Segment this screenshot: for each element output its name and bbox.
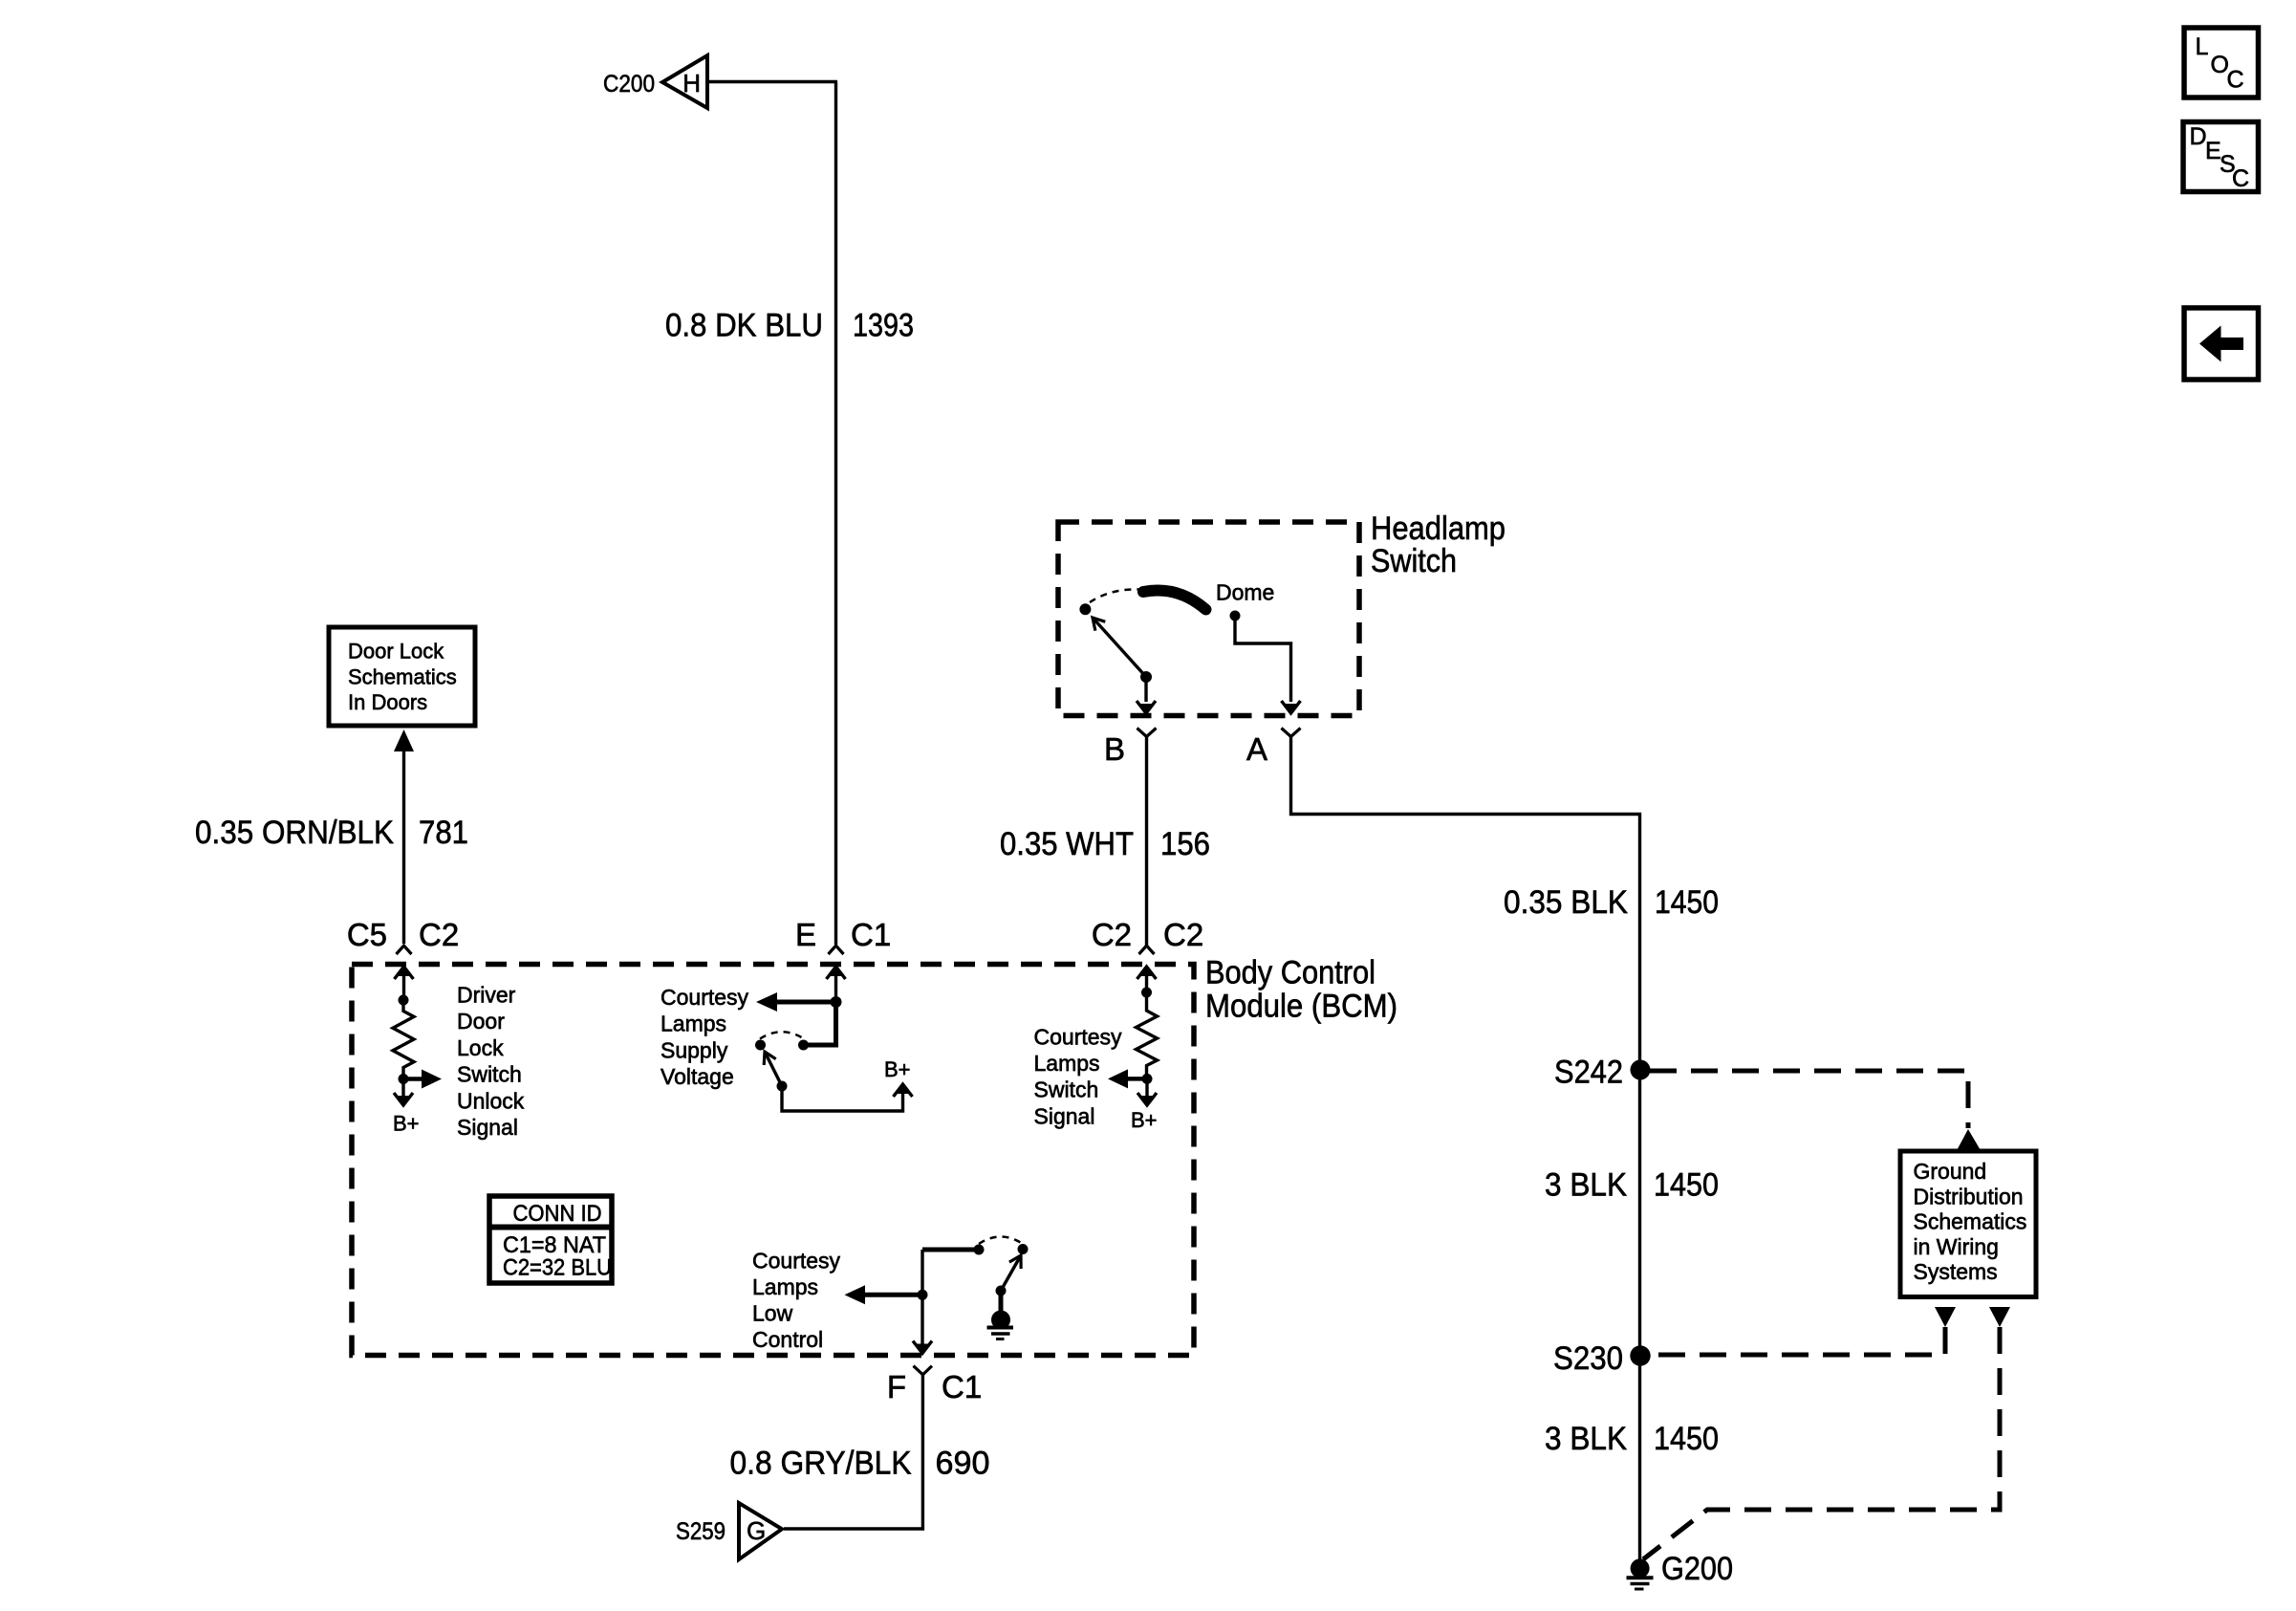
courtesy lamps supply voltage arrow left	[756, 992, 842, 1012]
BCM dashed box	[352, 965, 1194, 1356]
label 0.35 WHT 156	[1000, 826, 1210, 862]
arrow out of box toward S230	[1935, 1307, 1956, 1327]
splice S259 label	[676, 1518, 726, 1545]
dashed wire from box to S230	[1652, 1327, 1945, 1355]
svg-text:Switch: Switch	[457, 1062, 522, 1087]
dashed wire from S242 to ground distribution box	[1650, 1071, 1968, 1128]
svg-text:0.8 DK BLU: 0.8 DK BLU	[665, 308, 823, 344]
svg-text:Supply: Supply	[661, 1037, 728, 1062]
pin label C5 C2	[347, 917, 459, 952]
arrow into ground distribution box (top)	[1958, 1129, 1980, 1149]
svg-text:C2: C2	[1163, 917, 1203, 952]
connector chevron at A	[1282, 729, 1301, 737]
svg-text:C1: C1	[942, 1369, 982, 1404]
BCM pin arrow up at E/C1	[827, 966, 846, 1002]
switch signal arrow down to B+	[1137, 1078, 1157, 1106]
label Dome	[1216, 580, 1274, 605]
svg-text:Headlamp: Headlamp	[1371, 511, 1505, 547]
svg-text:S230: S230	[1553, 1340, 1623, 1377]
svg-text:Door Lock: Door Lock	[348, 640, 444, 664]
CONN ID table	[489, 1196, 612, 1283]
driver lock arrow down to B+	[394, 1079, 413, 1107]
svg-text:Signal: Signal	[1034, 1104, 1095, 1129]
supply voltage switch wiring	[755, 1002, 836, 1051]
svg-text:G: G	[747, 1516, 766, 1545]
arrow out of box toward G200	[1989, 1307, 2010, 1327]
svg-text:1450: 1450	[1654, 1421, 1719, 1457]
svg-text:in Wiring: in Wiring	[1914, 1234, 1999, 1259]
label 3 BLK 1450 (lower)	[1545, 1421, 1719, 1457]
wire from low-control switch down to F/C1	[913, 1250, 932, 1355]
svg-text:C2: C2	[419, 917, 459, 952]
splice S230	[1553, 1340, 1651, 1377]
wire from A down and right to ground run	[1291, 737, 1640, 1562]
Ground Distribution Schematics box	[1900, 1151, 2036, 1297]
connector chevron at F/C1	[914, 1366, 933, 1375]
svg-text:Driver: Driver	[457, 983, 516, 1008]
svg-text:Schematics: Schematics	[1914, 1209, 2027, 1234]
label Headlamp Switch	[1371, 511, 1505, 579]
wire 0.8 GRY/BLK 690	[784, 1375, 922, 1529]
svg-text:Voltage: Voltage	[661, 1064, 734, 1089]
supply voltage switch lever	[764, 1052, 787, 1092]
labels Courtesy Lamps Switch Signal	[1034, 1025, 1123, 1129]
svg-text:Courtesy: Courtesy	[752, 1249, 841, 1274]
headlamp rotary contact arc	[1143, 590, 1206, 609]
labels Driver Door Lock Switch Unlock Signal	[457, 983, 525, 1141]
Headlamp Switch dashed box	[1058, 522, 1359, 716]
lamps low switch lever	[996, 1255, 1022, 1296]
dashed wire from box to G200	[1643, 1327, 2000, 1559]
svg-text:Courtesy: Courtesy	[661, 985, 749, 1010]
back arrow box	[2184, 308, 2259, 380]
svg-text:0.35 BLK: 0.35 BLK	[1504, 884, 1628, 921]
label B+ (supply block)	[884, 1057, 911, 1081]
labels Courtesy Lamps Low Control	[752, 1249, 841, 1353]
internal ground below lever	[987, 1291, 1014, 1339]
svg-text:CONN ID: CONN ID	[513, 1201, 602, 1227]
svg-text:B+: B+	[884, 1057, 911, 1081]
svg-text:1450: 1450	[1655, 884, 1719, 921]
label 0.35 BLK 1450	[1504, 884, 1719, 921]
labels Courtesy Lamps Supply Voltage	[661, 985, 749, 1089]
svg-text:Systems: Systems	[1914, 1259, 1998, 1284]
pin label F C1	[887, 1369, 982, 1404]
svg-text:E: E	[795, 917, 816, 952]
svg-text:C5: C5	[347, 917, 387, 952]
svg-text:L: L	[2196, 33, 2209, 60]
headlamp switch lever	[1093, 618, 1152, 683]
svg-text:Signal: Signal	[457, 1115, 518, 1140]
label B+ (driver block)	[393, 1112, 420, 1136]
svg-text:Body Control: Body Control	[1205, 955, 1375, 991]
pin label B	[1104, 731, 1125, 767]
svg-text:690: 690	[936, 1446, 990, 1482]
label 0.8 DK BLU 1393	[665, 308, 914, 344]
ground G200 symbol	[1627, 1558, 1654, 1589]
courtesy lamps switch resistor	[1137, 988, 1158, 1084]
svg-text:0.35 WHT: 0.35 WHT	[1000, 826, 1134, 862]
svg-text:S242: S242	[1554, 1055, 1623, 1091]
svg-text:C200: C200	[603, 71, 655, 98]
svg-text:H: H	[682, 69, 701, 98]
label 0.8 GRY/BLK 690	[730, 1446, 990, 1482]
svg-text:Distribution: Distribution	[1914, 1184, 2024, 1208]
BCM pin arrow up at C2/C2	[1137, 966, 1157, 992]
lamps low control arrow left	[845, 1285, 928, 1304]
splice S259 triangle G	[739, 1503, 782, 1559]
svg-text:156: 156	[1160, 826, 1210, 862]
wire 0.35 WHT 156 from B to BCM C2	[1145, 737, 1148, 947]
svg-text:Lamps: Lamps	[752, 1274, 818, 1299]
label Body Control Module (BCM)	[1205, 955, 1397, 1025]
svg-text:Courtesy: Courtesy	[1034, 1025, 1123, 1050]
svg-text:C: C	[2227, 67, 2244, 94]
svg-text:C1: C1	[851, 917, 891, 952]
svg-text:In Doors: In Doors	[348, 690, 427, 714]
driver door lock switch resistor inside BCM	[393, 995, 414, 1085]
svg-text:Lock: Lock	[457, 1035, 504, 1060]
B pin arrow inside headlamp box	[1137, 677, 1156, 714]
svg-text:D: D	[2190, 123, 2207, 150]
svg-text:3 BLK: 3 BLK	[1545, 1167, 1627, 1204]
svg-text:Switch: Switch	[1034, 1078, 1099, 1102]
svg-text:Door: Door	[457, 1009, 505, 1034]
svg-text:Switch: Switch	[1371, 543, 1457, 579]
svg-text:F: F	[887, 1369, 906, 1404]
wire 0.8 DK BLU 1393 vertical	[834, 82, 837, 946]
svg-text:Unlock: Unlock	[457, 1088, 525, 1113]
pin label E C1	[795, 917, 891, 952]
svg-text:C2: C2	[1092, 917, 1132, 952]
dome contact wire to A pin	[1235, 616, 1301, 714]
dashed arc to pivot	[1090, 589, 1140, 602]
svg-text:C2=32 BLU: C2=32 BLU	[503, 1255, 612, 1281]
svg-text:781: 781	[419, 815, 468, 851]
supply voltage B+ branch	[782, 1083, 913, 1111]
DESC reference box	[2183, 122, 2259, 193]
svg-text:Schematics: Schematics	[348, 664, 457, 688]
connector chevron at C5/C2	[397, 946, 412, 954]
wire from C200 to vertical DK BLU wire	[707, 80, 837, 83]
svg-text:Low: Low	[752, 1301, 793, 1326]
arrow into Door Lock box	[394, 729, 414, 944]
svg-text:Module (BCM): Module (BCM)	[1205, 989, 1397, 1025]
splice S242	[1554, 1055, 1651, 1091]
label G200	[1661, 1551, 1733, 1587]
driver lock switch arrow right	[403, 1070, 442, 1089]
svg-text:Dome: Dome	[1216, 580, 1274, 605]
connector chevron at B	[1137, 729, 1157, 737]
svg-text:B: B	[1104, 731, 1125, 767]
connector chevron at E/C1	[829, 946, 844, 954]
svg-text:C: C	[2232, 165, 2249, 192]
headlamp switch pivot dot	[1079, 603, 1091, 615]
connector C200 label	[603, 71, 655, 98]
BCM pin arrow up at C5/C2	[395, 966, 414, 1000]
connector C200 triangle H	[662, 55, 707, 108]
label 0.35 ORN/BLK 781	[195, 815, 468, 851]
svg-text:Lamps: Lamps	[1034, 1051, 1100, 1076]
Door Lock Schematics In Doors box	[329, 627, 475, 726]
svg-text:Ground: Ground	[1914, 1159, 1987, 1184]
svg-text:0.8 GRY/BLK: 0.8 GRY/BLK	[730, 1446, 912, 1482]
LOC reference box	[2184, 28, 2259, 98]
svg-text:1393: 1393	[853, 308, 914, 344]
svg-text:B+: B+	[1131, 1108, 1158, 1132]
svg-text:Lamps: Lamps	[661, 1012, 726, 1036]
svg-text:S259: S259	[676, 1518, 726, 1545]
svg-text:3 BLK: 3 BLK	[1545, 1421, 1627, 1457]
svg-text:G200: G200	[1661, 1551, 1733, 1587]
svg-text:B+: B+	[393, 1112, 420, 1136]
pin label A	[1246, 731, 1267, 767]
courtesy lamps low control switch wiring	[922, 1237, 1029, 1255]
pin label C2 C2	[1092, 917, 1203, 952]
svg-text:A: A	[1246, 731, 1267, 767]
svg-text:1450: 1450	[1654, 1167, 1719, 1204]
courtesy lamps switch signal arrow left	[1108, 1069, 1147, 1088]
svg-text:0.35 ORN/BLK: 0.35 ORN/BLK	[195, 815, 394, 851]
label B+ (switch signal block)	[1131, 1108, 1158, 1132]
label 3 BLK 1450 (upper)	[1545, 1167, 1719, 1204]
connector chevron at C2/C2	[1139, 946, 1155, 954]
dome contact dot	[1230, 611, 1241, 621]
svg-text:Control: Control	[752, 1327, 823, 1352]
